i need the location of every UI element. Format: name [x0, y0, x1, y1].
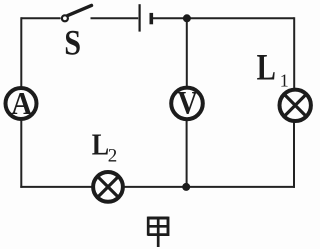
- wire top middle segment (switch to battery): [91, 17, 139, 19]
- wire middle vertical upper (node to voltmeter): [186, 18, 188, 86]
- node junction bottom: [182, 183, 190, 191]
- svg-text:V: V: [177, 85, 197, 121]
- wire right vertical lower: [293, 122, 295, 187]
- node junction top: [183, 14, 191, 22]
- wire right vertical upper: [293, 17, 295, 88]
- lamp L1 cross: [285, 95, 305, 115]
- wire middle vertical lower (voltmeter to bottom node): [186, 121, 188, 188]
- svg-text:S: S: [64, 23, 81, 63]
- lamp L2 cross: [99, 178, 118, 197]
- battery long plate: [139, 4, 141, 31]
- lamp L1 circle: [280, 90, 311, 121]
- svg-text:2: 2: [108, 146, 118, 167]
- wire left vertical lower: [20, 121, 22, 188]
- svg-text:L: L: [257, 47, 276, 88]
- wire bottom right segment: [125, 186, 296, 188]
- svg-text:L: L: [92, 127, 109, 162]
- switch S pivot: [62, 15, 68, 21]
- wire top right segment (battery to corner): [153, 17, 294, 19]
- wire top-left segment: [21, 17, 60, 19]
- switch S blade: [68, 5, 92, 15]
- svg-text:1: 1: [280, 71, 289, 91]
- label jia (甲) caption: [148, 217, 169, 247]
- voltmeter V1 circle: [171, 88, 203, 120]
- ammeter A1 circle: [6, 88, 37, 119]
- wire left vertical upper: [20, 17, 22, 86]
- svg-text:A: A: [11, 86, 32, 122]
- battery short plate: [150, 13, 154, 24]
- wire bottom left segment: [20, 186, 91, 188]
- lamp L2 circle: [93, 172, 123, 202]
